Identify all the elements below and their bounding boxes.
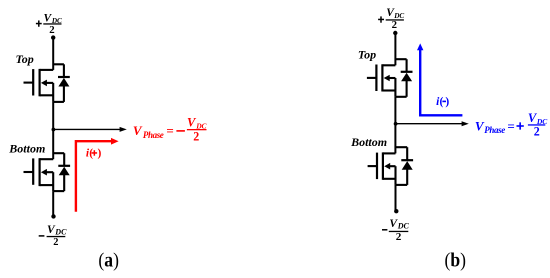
arrowhead of Q1 body terminal (a) bbox=[41, 80, 47, 87]
svg-text:V: V bbox=[133, 123, 143, 138]
svg-text:2: 2 bbox=[534, 124, 540, 139]
wire +VDC/2 to Q1 drain (a) bbox=[52, 38, 54, 70]
svg-text:2: 2 bbox=[396, 231, 402, 243]
wire +VDC/2 to Q3 drain (b) bbox=[394, 33, 396, 65]
svg-text:(a): (a) bbox=[98, 250, 119, 272]
svg-text:(b): (b) bbox=[445, 250, 467, 272]
node phase junction dot (b) bbox=[394, 122, 398, 126]
diode D3 body diode of Q3 (b) bbox=[395, 59, 412, 97]
svg-text:=: = bbox=[166, 123, 173, 138]
diode D2 body diode of Q2 (a) bbox=[53, 153, 70, 191]
wire Q4 source to -VDC/2 (b) bbox=[395, 185, 397, 211]
svg-text:): ) bbox=[445, 96, 449, 108]
wire phase output arrow (a) bbox=[53, 128, 120, 130]
wire blue current path i(-) (b) bbox=[420, 49, 462, 115]
svg-text:=: = bbox=[507, 118, 514, 133]
label -VDC/2 supply (a) bbox=[39, 224, 67, 248]
node +VDC/2 terminal dot (a) bbox=[51, 35, 55, 39]
wire phase node to Q4 drain (b) bbox=[394, 124, 396, 154]
wire red current path i(+) (a) bbox=[76, 141, 112, 212]
diode D1 triangle (a) bbox=[58, 78, 69, 87]
label VPhase = +VDC/2 (b) bbox=[475, 111, 548, 139]
diode D4 triangle (b) bbox=[402, 161, 413, 170]
node -VDC/2 terminal dot (a) bbox=[51, 214, 55, 218]
diode D2 triangle (a) bbox=[59, 167, 70, 176]
svg-text:2: 2 bbox=[193, 129, 199, 144]
svg-text:Phase: Phase bbox=[143, 130, 164, 140]
arrowhead of Q2 body terminal (a) bbox=[41, 169, 47, 176]
svg-text:Top: Top bbox=[16, 52, 34, 66]
transistor Q1 Top MOSFET (a) bbox=[24, 69, 54, 102]
svg-text:2: 2 bbox=[392, 19, 398, 31]
arrowhead of Q3 body terminal (b) bbox=[384, 75, 390, 82]
arrowhead of i(+) path (a) bbox=[111, 138, 119, 145]
transistor Q3 Top MOSFET (b) bbox=[367, 64, 396, 97]
label +VDC/2 supply (b) bbox=[378, 7, 404, 31]
svg-text:Bottom: Bottom bbox=[350, 135, 387, 149]
transistor Q2 Bottom MOSFET (a) bbox=[24, 158, 54, 191]
wire Q1 source to phase node (a) bbox=[52, 102, 54, 129]
svg-text:2: 2 bbox=[49, 24, 55, 36]
label +VDC/2 supply (a) bbox=[36, 12, 62, 36]
label -VDC/2 supply (b) bbox=[382, 218, 409, 243]
arrowhead of i(-) path (b) bbox=[417, 43, 423, 50]
node -VDC/2 terminal dot (b) bbox=[394, 209, 398, 213]
transistor Q4 Bottom MOSFET (b) bbox=[368, 152, 396, 185]
svg-text:2: 2 bbox=[53, 236, 59, 248]
wire phase node to Q2 drain (a) bbox=[52, 129, 54, 159]
arrowhead of Q4 body terminal (b) bbox=[384, 163, 390, 170]
wire Q2 source to -VDC/2 (a) bbox=[52, 191, 54, 216]
wire phase output arrow (b) bbox=[395, 123, 462, 125]
diode D1 body diode of Q1 (a) bbox=[53, 64, 70, 102]
diode D3 triangle (b) bbox=[401, 73, 412, 82]
svg-text:DC: DC bbox=[397, 222, 410, 231]
svg-text:): ) bbox=[98, 148, 102, 160]
svg-text:Top: Top bbox=[358, 47, 376, 61]
node phase junction dot (a) bbox=[52, 128, 56, 132]
label VPhase = -VDC/2 (a) bbox=[133, 116, 208, 144]
svg-text:Phase: Phase bbox=[484, 125, 505, 135]
node +VDC/2 terminal dot (b) bbox=[393, 31, 397, 35]
svg-text:Bottom: Bottom bbox=[8, 141, 45, 155]
diode D4 body diode of Q4 (b) bbox=[396, 147, 414, 185]
wire Q3 source to phase node (b) bbox=[394, 97, 396, 124]
